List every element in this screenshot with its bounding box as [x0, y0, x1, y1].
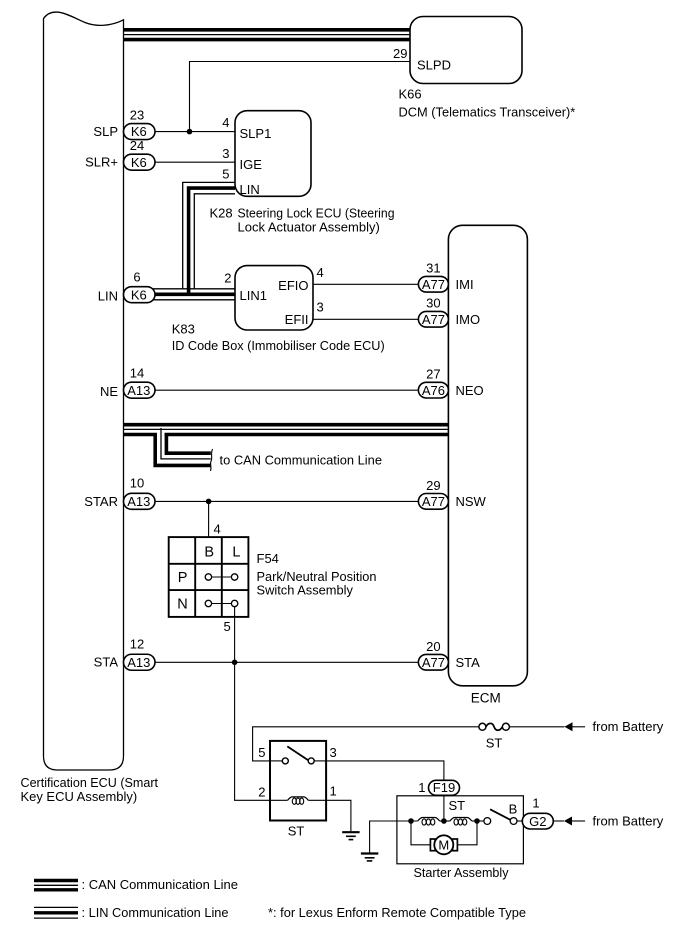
wire EFII to IMO — [313, 318, 418, 320]
svg-text:STA: STA — [456, 655, 481, 670]
svg-text:K6: K6 — [131, 124, 147, 139]
svg-text:IMO: IMO — [456, 312, 481, 327]
LIN bundle vertical thick — [189, 188, 235, 294]
legend LIN symbol — [34, 906, 78, 908]
svg-text:EFIO: EFIO — [278, 278, 308, 293]
svg-text:2: 2 — [224, 271, 231, 286]
svg-text:A13: A13 — [127, 383, 150, 398]
wire SLPD pin29 — [190, 62, 411, 132]
svg-text:B: B — [204, 545, 214, 561]
svg-text:SLP: SLP — [93, 124, 118, 139]
svg-text:A77: A77 — [422, 655, 445, 670]
svg-text:M: M — [438, 838, 449, 853]
svg-text:ST: ST — [486, 736, 503, 751]
CAN bus top thick2 — [124, 38, 411, 42]
svg-text:*: for Lexus Enform Remote Com: *: for Lexus Enform Remote Compatible Ty… — [268, 905, 526, 920]
svg-text:LIN1: LIN1 — [240, 288, 267, 303]
oval A13 STA — [124, 654, 156, 670]
motor wires — [411, 821, 430, 845]
svg-text:A77: A77 — [422, 312, 445, 327]
svg-text:NE: NE — [100, 384, 118, 399]
LIN bundle horizontal thin top — [150, 288, 235, 290]
F54 grid table — [169, 537, 249, 617]
oval A77 STA — [418, 654, 448, 670]
oval F19 — [429, 780, 460, 795]
svg-text:STA: STA — [94, 655, 119, 670]
svg-text:27: 27 — [426, 367, 440, 382]
svg-text:F54: F54 — [257, 551, 279, 566]
svg-text:from Battery: from Battery — [593, 813, 664, 828]
ECM box — [448, 225, 527, 686]
ST coil — [288, 797, 309, 804]
svg-text:4: 4 — [222, 115, 229, 130]
CAN branch thin — [161, 428, 211, 459]
ST switch box — [270, 741, 326, 821]
svg-text:Switch Assembly: Switch Assembly — [257, 583, 354, 598]
svg-text:30: 30 — [426, 296, 440, 311]
CAN bus mid thin — [124, 428, 449, 430]
oval A13 STAR — [124, 493, 156, 509]
svg-text:Starter Assembly: Starter Assembly — [414, 865, 509, 880]
junction dots starter — [408, 818, 414, 824]
CAN branch thick right — [166, 433, 210, 453]
oval K6 SLP — [124, 124, 156, 140]
svg-text:STAR: STAR — [84, 494, 118, 509]
wire fuse to arrow — [509, 726, 564, 728]
svg-text:SLR+: SLR+ — [85, 155, 118, 170]
ground 1 — [342, 832, 359, 839]
ST coil wire — [270, 799, 288, 801]
svg-text:to CAN Communication Line: to CAN Communication Line — [220, 453, 383, 468]
svg-text:ECM: ECM — [471, 691, 501, 706]
DCM box K66 — [410, 17, 522, 84]
oval K6 SLR+ — [124, 154, 156, 170]
svg-text:23: 23 — [130, 108, 144, 123]
svg-text:SLPD: SLPD — [417, 58, 451, 73]
LIN bundle horizontal thin bottom — [150, 299, 235, 301]
certification ECU box — [44, 12, 124, 770]
svg-text:SLP1: SLP1 — [240, 126, 272, 141]
svg-text:31: 31 — [426, 261, 440, 276]
wire battery to ST pin5 — [253, 727, 480, 761]
CAN bus top thin — [124, 34, 411, 36]
svg-text:20: 20 — [426, 639, 440, 654]
svg-text:5: 5 — [222, 167, 229, 182]
LIN bundle vertical thin inner — [194, 194, 235, 289]
junction STA node — [232, 660, 238, 666]
wire EFIO to IMI — [313, 283, 418, 285]
svg-text:A76: A76 — [422, 383, 445, 398]
oval A77 IMI — [418, 276, 448, 292]
svg-text:K28: K28 — [210, 206, 233, 221]
svg-text:24: 24 — [130, 138, 144, 153]
wire STAR to NSW — [150, 500, 418, 502]
svg-text:ST: ST — [449, 798, 466, 813]
svg-text:from Battery: from Battery — [593, 719, 664, 734]
wire F54 pin5 down to ST pin2 — [235, 607, 270, 801]
svg-text:4: 4 — [317, 265, 324, 280]
F54 contact P row — [212, 576, 232, 578]
svg-text:A13: A13 — [127, 494, 150, 509]
wire ST pin3 to F19 — [326, 761, 444, 780]
wire F19 to coil junction — [443, 795, 445, 821]
CAN bus mid thick1 — [124, 423, 449, 427]
CAN bus top thick1 — [124, 28, 411, 32]
LIN bundle vertical thin outer — [183, 182, 235, 288]
svg-text:ID Code Box (Immobiliser Code: ID Code Box (Immobiliser Code ECU) — [172, 338, 385, 353]
svg-text:Key ECU Assembly): Key ECU Assembly) — [21, 789, 138, 804]
oval A13 NE — [124, 382, 156, 398]
motor M — [430, 839, 435, 851]
starter coil 2 — [450, 818, 472, 826]
LIN bundle horizontal thick — [150, 292, 235, 296]
svg-text:K6: K6 — [131, 155, 147, 170]
starter assembly box — [397, 796, 524, 864]
svg-text:NSW: NSW — [456, 494, 487, 509]
starter switch — [484, 818, 491, 825]
svg-text:F19: F19 — [433, 780, 455, 795]
oval K6 LIN — [124, 287, 156, 303]
svg-text:DCM (Telematics Transceiver)*: DCM (Telematics Transceiver)* — [399, 105, 576, 120]
svg-text:4: 4 — [214, 522, 221, 537]
svg-text:Lock Actuator Assembly): Lock Actuator Assembly) — [238, 220, 380, 235]
svg-text:IMI: IMI — [456, 277, 474, 292]
F54 contact N row — [212, 603, 232, 605]
oval A77 IMO — [418, 311, 448, 327]
svg-text:K6: K6 — [131, 287, 147, 302]
svg-text:6: 6 — [133, 270, 140, 285]
oval G2 — [522, 813, 553, 829]
svg-text:K83: K83 — [172, 322, 195, 337]
wire starter ground — [370, 821, 397, 853]
starter coil 1 — [418, 818, 440, 826]
svg-text:A13: A13 — [127, 655, 150, 670]
svg-text:29: 29 — [393, 46, 407, 61]
svg-text:ST: ST — [288, 824, 305, 839]
svg-text:A77: A77 — [422, 494, 445, 509]
svg-text:N: N — [177, 596, 187, 612]
svg-text:29: 29 — [426, 478, 440, 493]
arrow from battery top — [564, 722, 572, 731]
wire STA to STA — [150, 661, 418, 663]
svg-text:NEO: NEO — [456, 383, 484, 398]
junction SLP node — [187, 129, 193, 135]
ST switch contacts — [270, 760, 282, 762]
svg-text:5: 5 — [258, 745, 265, 760]
svg-text:P: P — [178, 570, 188, 586]
wire F54 pin4 — [208, 501, 210, 537]
svg-text:A77: A77 — [422, 277, 445, 292]
oval A77 NSW — [418, 494, 448, 510]
wire SLR+ IGE — [150, 161, 235, 163]
svg-text:1: 1 — [418, 780, 425, 795]
svg-text:LIN: LIN — [98, 289, 118, 304]
legend CAN symbol — [34, 879, 78, 882]
fuse ST top — [479, 723, 486, 730]
svg-text:K66: K66 — [399, 87, 422, 102]
CAN bus mid thick2 — [124, 433, 158, 437]
starter coil row wires — [397, 820, 418, 822]
svg-text:LIN: LIN — [240, 182, 260, 197]
svg-text:5: 5 — [224, 619, 231, 634]
svg-text:2: 2 — [258, 785, 265, 800]
svg-text:1: 1 — [330, 784, 337, 799]
svg-text:Certification ECU (Smart: Certification ECU (Smart — [21, 775, 159, 790]
svg-text:L: L — [232, 545, 240, 561]
K28 steering lock ECU box — [235, 111, 311, 197]
K83 ID code box — [235, 266, 313, 330]
svg-text:3: 3 — [222, 146, 229, 161]
svg-text:IGE: IGE — [240, 157, 263, 172]
svg-text:EFII: EFII — [285, 312, 309, 327]
CAN branch thick left — [155, 433, 211, 465]
arrow from battery bottom — [564, 817, 572, 826]
wire ST pin1 to ground — [326, 800, 351, 831]
svg-text:14: 14 — [130, 366, 144, 381]
svg-text:3: 3 — [317, 300, 324, 315]
junction STAR node — [206, 499, 212, 505]
svg-text:12: 12 — [130, 637, 144, 652]
svg-text:1: 1 — [532, 796, 539, 811]
svg-text:G2: G2 — [529, 814, 546, 829]
wire NE to NEO — [150, 389, 418, 391]
CAN branch break squiggle — [211, 449, 213, 471]
svg-text:10: 10 — [130, 476, 144, 491]
svg-text:Steering Lock ECU (Steering: Steering Lock ECU (Steering — [238, 206, 395, 221]
svg-text:3: 3 — [330, 745, 337, 760]
svg-text:: CAN Communication Line: : CAN Communication Line — [82, 877, 239, 892]
wire SLP pin4 — [150, 131, 235, 133]
ground 2 — [361, 854, 378, 861]
svg-text:B: B — [509, 802, 518, 817]
svg-text:: LIN Communication Line: : LIN Communication Line — [82, 905, 229, 920]
ST switch blade — [287, 746, 308, 760]
oval A76 NEO — [418, 382, 448, 398]
